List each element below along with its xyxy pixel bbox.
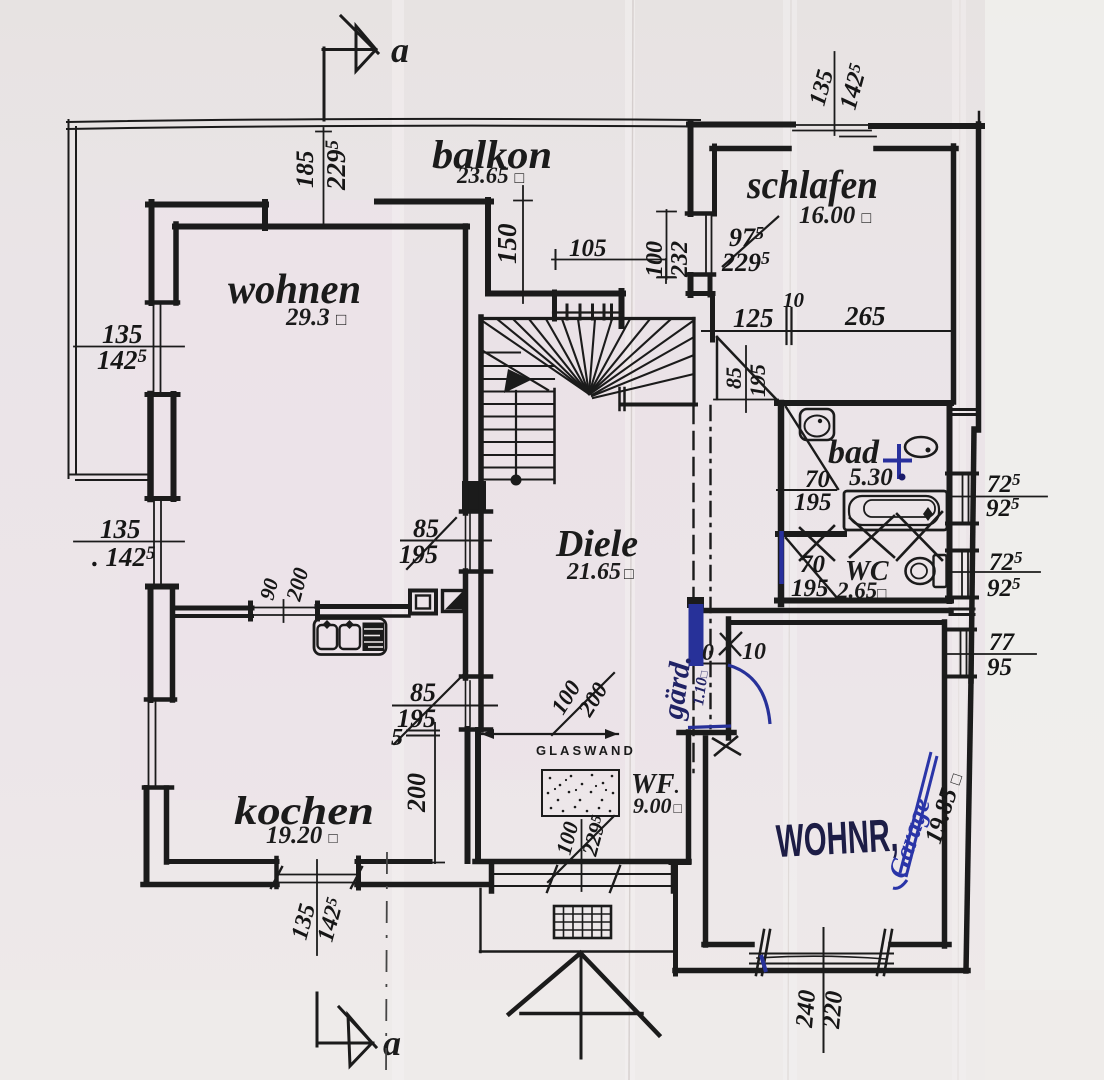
dim 125/10/265 line xyxy=(702,330,951,332)
kochen door end cap right xyxy=(315,603,320,619)
terrace window ticks xyxy=(547,866,557,892)
svg-text:195: 195 xyxy=(399,540,438,569)
dim 135/1425 left lower line xyxy=(74,541,184,543)
window B cap bottom xyxy=(148,584,176,590)
north/roof triangle xyxy=(509,953,581,1014)
dim 85/195 kochen door: line xyxy=(393,705,497,707)
schlafen door threshold xyxy=(714,399,778,401)
wohnr bottom window ticks right xyxy=(877,930,885,975)
schlafen left window cap top xyxy=(687,211,714,216)
dashed corridor line 1 xyxy=(692,406,694,772)
dim 240/220 vertical line xyxy=(823,928,825,1052)
dim 150 vertical line xyxy=(522,186,524,303)
dim 5 double underline xyxy=(407,730,439,732)
dashed corridor line 2 xyxy=(709,406,711,728)
svg-text:195: 195 xyxy=(745,364,770,397)
wohnr right inner wall xyxy=(942,622,948,946)
dim 200 kochen: vertical line xyxy=(434,722,436,864)
schlafen outer wall left xyxy=(688,122,694,214)
svg-text:GLASWAND: GLASWAND xyxy=(536,743,636,758)
paper fold crease 2 xyxy=(625,0,635,1080)
stair walk arrow xyxy=(504,369,531,393)
schlafen door swing xyxy=(717,337,776,399)
closet right wall xyxy=(726,619,732,738)
landing wall horizontal xyxy=(488,291,623,297)
outer thin boundary top (double line) xyxy=(67,119,700,122)
svg-text:0: 0 xyxy=(702,640,714,666)
closet shelf line xyxy=(704,663,729,665)
landing wall end post xyxy=(619,291,625,326)
stair top step band xyxy=(552,292,557,319)
svg-text:200: 200 xyxy=(402,773,431,813)
bad washbasin xyxy=(800,409,834,440)
schlafen left window 100/232 xyxy=(705,215,707,274)
window C cap top xyxy=(146,697,175,702)
left wall jog xyxy=(671,860,689,865)
blue tick at wohnr window xyxy=(761,955,766,972)
kochen top wall inner line xyxy=(175,614,252,618)
wohnen top wall outer xyxy=(148,202,266,208)
schlafen outer wall top left part xyxy=(689,122,793,128)
blue ink stroke on wc left wall xyxy=(779,531,784,584)
stove (hatched block) xyxy=(363,623,385,652)
right wall window 3 caps xyxy=(945,628,975,632)
stairwell right edge xyxy=(692,319,695,406)
dim 100/2295 leader xyxy=(548,816,614,882)
glaswand line with arrows xyxy=(481,733,618,735)
wohnr bottom window xyxy=(750,953,893,955)
dim 85/195 schlafen door line xyxy=(745,346,747,412)
right wall window 3 xyxy=(960,630,962,676)
kochen top wall outer line xyxy=(174,606,252,611)
svg-text:135: 135 xyxy=(100,514,141,544)
svg-text:240: 240 xyxy=(791,988,821,1029)
kochen door opening threshold xyxy=(252,607,316,609)
bad/wc right inner wall xyxy=(947,403,953,601)
svg-text:10: 10 xyxy=(783,288,805,312)
glaswand arrowheads xyxy=(481,729,494,739)
right wall window 1 caps xyxy=(947,472,977,476)
balkon recess wall right vertical xyxy=(485,200,491,293)
balkon recess wall top xyxy=(377,199,491,205)
svg-text:a: a xyxy=(391,30,409,70)
schlafen left pier xyxy=(688,275,694,295)
bad left wall xyxy=(778,403,785,604)
svg-text:150: 150 xyxy=(492,223,522,264)
wc bottom wall xyxy=(777,598,951,604)
schlafen outer wall right xyxy=(976,124,982,430)
lower flight winder diagonal xyxy=(483,351,548,390)
wohnen door jamb tick lower xyxy=(461,569,491,574)
chimney flue 2 filled half xyxy=(445,592,462,610)
bathtub diamond xyxy=(923,507,933,521)
stair fan centre ticks xyxy=(618,388,621,410)
faint dashed crease line bottom xyxy=(386,852,387,1080)
svg-text:WOHNR,: WOHNR, xyxy=(775,809,900,867)
window B (left wall) xyxy=(153,500,155,585)
svg-text:125: 125 xyxy=(733,303,774,333)
svg-text:16.00 □: 16.00 □ xyxy=(799,202,872,229)
kochen door jamb tick lower xyxy=(461,727,491,732)
sink taps xyxy=(323,620,332,629)
dim text 975 with leader xyxy=(722,216,779,267)
wohnen top wall step xyxy=(262,202,268,228)
dim text 135/1425 upper left xyxy=(97,319,148,375)
blue garderobe door arc xyxy=(728,665,770,724)
window A cap bottom / pier top xyxy=(147,392,178,397)
terrace window band xyxy=(494,873,672,875)
kochen bottom wall inner right xyxy=(357,859,430,864)
central wall block at stair foot xyxy=(462,481,486,513)
kochen door jamb tick upper xyxy=(461,674,491,679)
paper fold crease 1 xyxy=(392,0,404,1080)
svg-text:195: 195 xyxy=(794,489,832,516)
dim 100/2295 vertical line xyxy=(581,820,583,891)
svg-text:100: 100 xyxy=(642,241,668,277)
wohnr bottom inner wall left piece xyxy=(704,942,752,948)
wohnr bottom inner wall right piece xyxy=(891,942,949,948)
WF bottom wall xyxy=(475,859,689,865)
central wall left line (segment 3) xyxy=(465,729,471,861)
paper fold crease 4 xyxy=(952,0,966,1080)
svg-text:77: 77 xyxy=(989,629,1016,656)
right wall tie 1 xyxy=(951,408,976,411)
kochen bottom window ticks xyxy=(271,867,282,888)
schlafen top window xyxy=(793,124,871,126)
left wall pier xyxy=(147,394,154,499)
schlafen outer wall top right part xyxy=(871,123,982,129)
outer thin boundary bottom-left xyxy=(69,474,151,476)
window A (left wall) xyxy=(153,303,155,392)
paper tint patches xyxy=(120,200,400,800)
stair newel line xyxy=(553,389,556,483)
bad/wc divider wall xyxy=(778,531,844,537)
central wall right line xyxy=(478,317,484,730)
window A cap top xyxy=(147,300,178,305)
dim line 725/925 lower xyxy=(948,571,1040,573)
right wall window 2 caps xyxy=(947,549,977,553)
right outer wall lower xyxy=(966,680,971,971)
dim 135/1425 bottom vertical line xyxy=(316,860,318,955)
right outer wall middle xyxy=(971,429,974,681)
central wall left line (segment 2) xyxy=(463,571,469,678)
dim 100/200 glaswand leader xyxy=(552,673,614,735)
dim 85/195 kochen door: leader xyxy=(394,671,467,744)
svg-text:5.30: 5.30 xyxy=(849,464,893,491)
svg-text:85: 85 xyxy=(410,678,436,707)
wohnen top wall inner xyxy=(175,224,467,230)
wohnen door leaf thin lines xyxy=(465,514,467,569)
blue tap cross in bad xyxy=(883,444,912,479)
bad washbasin dot xyxy=(818,419,822,423)
schlafen inner wall top xyxy=(712,146,789,152)
terrace door end block right xyxy=(671,863,677,891)
wohnen left wall inner upper xyxy=(173,224,179,303)
kochen top wall right part xyxy=(317,604,409,609)
svg-text:10: 10 xyxy=(742,639,766,665)
central wall left line (segment 1) xyxy=(463,226,469,513)
svg-text:schlafen: schlafen xyxy=(746,162,878,207)
window C (left wall) xyxy=(148,701,150,787)
dim 85/195 wohnen door: leader xyxy=(407,518,456,569)
wohnen left wall outer upper xyxy=(149,202,155,303)
stair bottom-right tread line xyxy=(621,403,696,407)
dim 135/1425 left upper line xyxy=(74,346,184,348)
wohnr top wall inner xyxy=(733,620,941,625)
dim text 135/1425 lower left xyxy=(92,514,156,572)
blue ink door post (garderobe) xyxy=(687,597,704,608)
closet bottom wall xyxy=(679,730,734,736)
wohnr top wall outer xyxy=(704,608,951,614)
kochen left wall lower xyxy=(144,788,150,884)
bathtub inner xyxy=(849,496,939,525)
section marker a (bottom) xyxy=(317,993,376,1066)
bad mirror dot xyxy=(926,448,931,453)
svg-text:23.65 □: 23.65 □ xyxy=(456,163,525,188)
dim 185/2295 vertical line xyxy=(323,128,325,225)
terrace door end block left xyxy=(489,863,495,891)
dim 90/200 vertical line xyxy=(283,600,285,622)
svg-text:265: 265 xyxy=(844,301,886,331)
dim line 725/925 upper xyxy=(948,496,1047,498)
wc toilet bowl xyxy=(906,558,935,584)
right wall window 1 xyxy=(962,474,964,523)
svg-text:95: 95 xyxy=(987,654,1012,681)
stair walk line dot xyxy=(511,475,522,486)
pier cap bottom xyxy=(147,496,178,501)
bad top wall xyxy=(777,400,951,406)
svg-text:85: 85 xyxy=(721,367,746,389)
cross-out X marks over tub and wc xyxy=(800,512,942,560)
outer thin boundary left (double line) xyxy=(68,120,70,478)
wohnr bottom outer wall xyxy=(675,968,968,974)
bathtub outer xyxy=(844,491,947,530)
schlafen inner wall right xyxy=(951,146,957,402)
chimney flue 1 xyxy=(410,591,436,614)
kochen bottom wall inner left xyxy=(168,859,277,864)
kochen left wall upper xyxy=(148,587,154,700)
dim 135/1425 schlafen vertical line xyxy=(834,52,836,135)
wohnr left wall inner xyxy=(703,738,709,945)
svg-text:185: 185 xyxy=(292,151,319,189)
schlafen left window cap bottom xyxy=(687,272,714,277)
svg-text:5: 5 xyxy=(391,725,403,751)
door mat grid xyxy=(554,906,611,938)
stairwell top edge xyxy=(481,317,695,320)
svg-text:85: 85 xyxy=(413,514,439,543)
bad door swing xyxy=(786,407,838,489)
kochen bottom window cap right xyxy=(356,858,361,888)
dim 85/195 wohnen door: line xyxy=(401,540,491,542)
wohnr bottom window ticks left xyxy=(756,930,764,975)
svg-text:232: 232 xyxy=(667,241,693,278)
kochen door leaf thin lines xyxy=(465,681,467,726)
window C cap bottom xyxy=(144,785,172,790)
black X below closet xyxy=(712,738,741,755)
kochen bottom window cap left xyxy=(274,858,279,887)
kitchen sink unit xyxy=(314,619,386,655)
kochen door end cap xyxy=(248,603,253,619)
wc toilet tank xyxy=(934,555,947,587)
svg-text:70: 70 xyxy=(800,551,826,578)
schlafen inner wall left xyxy=(712,146,717,214)
stippled WF rectangle xyxy=(542,770,619,816)
svg-text:105: 105 xyxy=(569,235,607,262)
wc door swing xyxy=(786,538,838,599)
entrance steps box xyxy=(479,889,481,952)
paper fold crease 3 xyxy=(783,0,797,1080)
lower flight treads xyxy=(484,353,554,480)
kochen bottom window xyxy=(277,874,357,876)
dim 105 line xyxy=(552,259,666,261)
wohnr left wall outer xyxy=(686,732,692,862)
wohnen door jamb tick upper xyxy=(461,509,491,514)
right wall window 2 xyxy=(961,551,963,597)
bad mirror xyxy=(905,437,937,457)
kochen bottom wall outer xyxy=(143,882,277,888)
svg-text:220: 220 xyxy=(818,989,848,1030)
svg-text:195: 195 xyxy=(791,575,829,602)
chimney flue 2 xyxy=(443,591,464,612)
right wall tie 2 xyxy=(950,608,974,611)
wall stub below pier xyxy=(710,294,715,340)
dim 100/232 line xyxy=(666,210,668,279)
schlafen door jamb xyxy=(716,337,719,399)
stair fan treads xyxy=(481,319,694,398)
section marker a (top) xyxy=(323,16,378,120)
svg-text:19.20 □: 19.20 □ xyxy=(266,822,338,849)
dim line 77/95 xyxy=(944,653,1036,655)
stair walk line xyxy=(515,391,517,480)
